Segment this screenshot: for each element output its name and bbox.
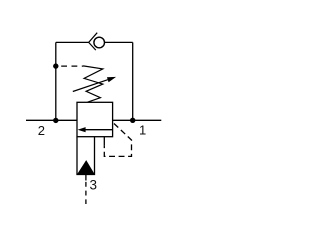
wire right riser bbox=[132, 42, 134, 120]
adjustment arrow head bbox=[107, 77, 116, 82]
svg-text:1: 1 bbox=[139, 122, 146, 137]
check valve V1 seat bbox=[89, 33, 98, 50]
pilot line (dashed) loop from port 1 corner to body bottom bbox=[104, 123, 131, 157]
port 3 dashed drain line bbox=[85, 182, 87, 204]
flow path arrow line inside body bbox=[85, 129, 113, 131]
node junction dot vent tap bbox=[53, 63, 58, 68]
pilot source triangle (filled) bbox=[78, 161, 95, 174]
wire left riser bbox=[55, 42, 57, 120]
valve body square U1 bbox=[77, 102, 113, 136]
node junction dot on port 2 bbox=[53, 118, 58, 123]
node junction dot on port 1 bbox=[130, 118, 135, 123]
pilot vent line (dashed) to spring bbox=[61, 65, 83, 67]
port 3 stub bbox=[85, 175, 87, 181]
port 2 line bbox=[26, 119, 77, 121]
port 1 line bbox=[113, 119, 162, 121]
check valve V1 ball bbox=[94, 37, 105, 48]
wire top rail left segment bbox=[56, 41, 89, 43]
wire top rail right segment bbox=[105, 41, 133, 43]
adjustment arrow shaft bbox=[73, 80, 108, 92]
svg-text:3: 3 bbox=[90, 177, 98, 192]
svg-text:2: 2 bbox=[38, 123, 45, 138]
drain tube below body bbox=[77, 137, 95, 175]
flow path arrow head (points left) bbox=[78, 127, 86, 132]
spring (adjustable) zigzag bbox=[83, 66, 103, 102]
pilot stub from body bottom bbox=[103, 137, 105, 146]
